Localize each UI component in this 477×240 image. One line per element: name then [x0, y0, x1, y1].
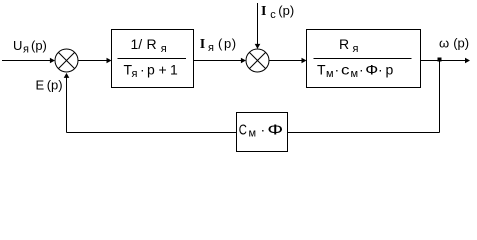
- svg-text:Ф: Ф: [267, 121, 283, 138]
- fraction line of block W2: [314, 58, 412, 60]
- node: branch point on output line: [438, 58, 442, 62]
- svg-text:·: ·: [261, 121, 266, 137]
- wire: summing junction 2 to block 2: [270, 58, 307, 64]
- summing junction 1 (circle with X): [55, 49, 78, 72]
- wire: feedback up into summing junction 1 with arrowhead: [64, 73, 70, 133]
- svg-text:С: С: [239, 121, 247, 138]
- svg-text:E(p): E(p): [36, 78, 63, 93]
- wire: summing junction 1 to block 1: [79, 58, 112, 64]
- wire: block 1 to summing junction 2: [194, 58, 246, 64]
- svg-text:Tя·p+1: Tя·p+1: [124, 62, 179, 81]
- block W3: feedback gain box c_м·Ф: [237, 113, 288, 152]
- wire: I_c input from top with arrowhead into summing junction 2: [255, 3, 261, 49]
- wire: branch down from node: [439, 61, 441, 133]
- fraction line of block W1: [118, 58, 187, 60]
- summing junction 2 (circle with X): [246, 49, 269, 72]
- wire: bottom feedback line: [67, 132, 440, 134]
- wire: input U line with arrowhead into summing junction 1: [2, 58, 55, 64]
- svg-text:м: м: [249, 128, 257, 140]
- svg-text:ω(p): ω(p): [439, 36, 469, 51]
- wire: block 2 to output with arrowhead: [421, 58, 471, 64]
- block W2: mechanical transfer function box: [307, 30, 421, 88]
- block W1: armature transfer function box: [112, 30, 194, 88]
